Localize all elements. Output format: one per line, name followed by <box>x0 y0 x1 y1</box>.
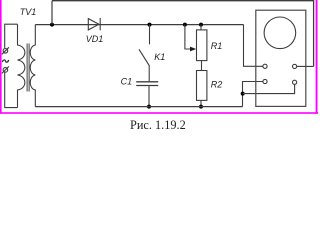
wire K1 to C1 <box>148 66 150 82</box>
wire wiper of R1 with arrow <box>185 25 196 52</box>
wire R2 bottom lead <box>200 100 202 106</box>
frame bottom magenta <box>0 112 318 114</box>
wire K1 top lead <box>149 25 151 45</box>
diode VD1 <box>88 18 100 30</box>
node C1 bottom junction <box>147 105 151 109</box>
wire input bottom: terminal X2 down and right to primary <box>5 72 18 107</box>
oscilloscope terminal right-top <box>293 64 297 68</box>
wire scope right-top terminal to right edge <box>297 65 314 67</box>
resistor R1 <box>197 30 207 61</box>
wire rail (diode cathode to scope corner) <box>88 24 243 26</box>
node junction top-left <box>50 23 54 27</box>
node R2 bottom junction <box>199 105 203 109</box>
frame right magenta <box>316 0 318 114</box>
oscilloscope terminal right-bottom <box>293 80 297 84</box>
node K1 top junction <box>148 23 152 27</box>
transformer TV1 core <box>27 44 29 92</box>
oscilloscope terminal left-top <box>263 64 267 68</box>
svg-text:TV1: TV1 <box>20 7 37 17</box>
node wiper junction <box>183 23 187 27</box>
wire riser bottom-left of scope <box>243 82 264 107</box>
wire input top: terminal X1 up and right to primary <box>5 24 18 48</box>
AC input terminal X1 (top, circle with slash) <box>2 47 9 54</box>
wire riser to top rail <box>51 1 53 25</box>
transformer TV1 primary winding <box>18 24 25 107</box>
wire R1 top lead <box>200 25 202 30</box>
wire top rail (to right edge, down to oscilloscope) <box>52 1 314 67</box>
wire R1 to R2 <box>201 61 203 71</box>
frame left magenta <box>0 0 2 114</box>
svg-text:VD1: VD1 <box>86 34 104 44</box>
AC input terminal X2 (bottom, circle with slash) <box>2 66 9 73</box>
capacitor C1 <box>136 82 158 86</box>
svg-text:Рис. 1.19.2: Рис. 1.19.2 <box>130 118 186 132</box>
wire bottom rail <box>35 106 242 108</box>
node R1 top junction <box>199 23 203 27</box>
wire C1 bottom lead <box>148 86 150 107</box>
resistor R2 <box>197 71 207 101</box>
svg-text:R2: R2 <box>211 79 223 89</box>
transformer TV1 secondary winding <box>30 25 35 107</box>
node scope ground junction <box>241 92 245 96</box>
svg-text:C1: C1 <box>121 76 133 86</box>
oscilloscope body <box>256 10 306 106</box>
oscilloscope terminal left-bottom <box>263 79 267 83</box>
wire rail (secondary top to diode anode) <box>35 24 88 26</box>
wire to scope right-bottom terminal <box>243 84 295 93</box>
switch K1 blade (open) <box>139 49 149 66</box>
AC source symbol ~ <box>2 60 8 62</box>
svg-text:K1: K1 <box>154 52 165 62</box>
wire rail corner down to scope left-top terminal <box>244 25 264 67</box>
svg-text:R1: R1 <box>211 41 223 51</box>
oscilloscope screen <box>264 17 296 49</box>
